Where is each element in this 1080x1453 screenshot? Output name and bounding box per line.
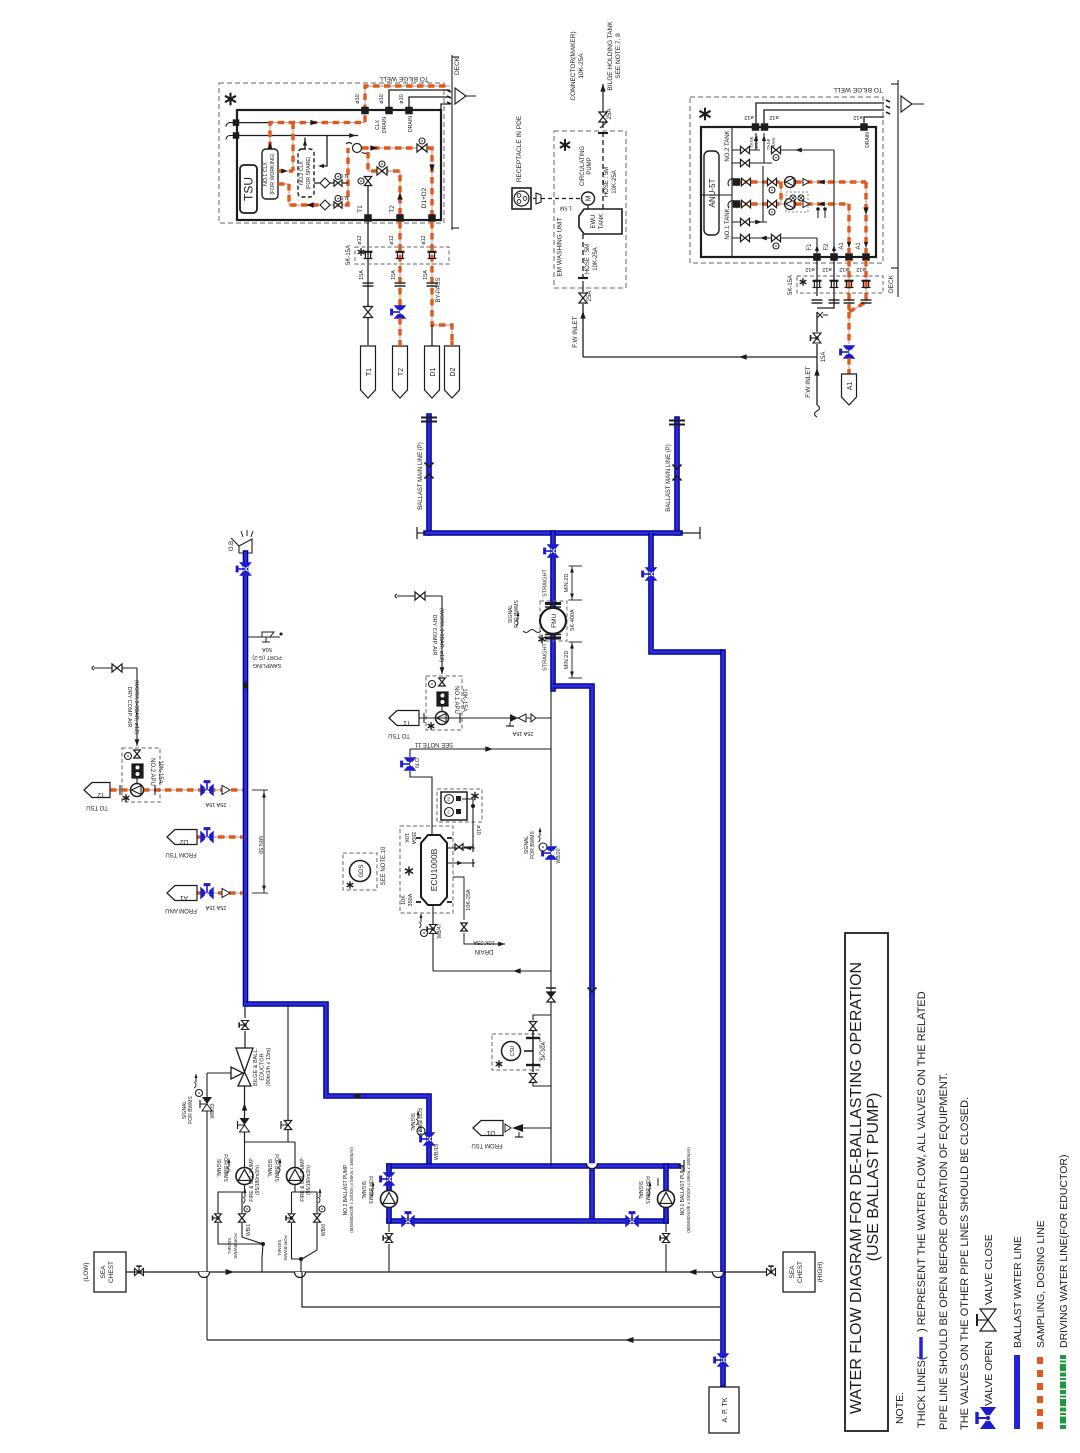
svg-text:NO.2 TANK: NO.2 TANK <box>725 130 731 161</box>
flag T2 left <box>84 783 110 798</box>
pump discharge manifold <box>245 1141 296 1143</box>
svg-text:ø10: ø10 <box>399 94 405 103</box>
valve N.O with gauge <box>334 202 342 209</box>
dimension MIN.50 <box>263 790 265 893</box>
connector to maker <box>598 132 608 134</box>
legend sampling dosing line sample <box>1037 1355 1043 1429</box>
EWU tank <box>579 209 622 234</box>
line breaks ANU <box>812 299 823 301</box>
svg-text:(FOR WORKING): (FOR WORKING) <box>270 153 276 194</box>
hose upper 5M dashed <box>602 133 604 209</box>
check valve D1 <box>505 1124 511 1132</box>
svg-text:FROM ANU: FROM ANU <box>165 907 197 913</box>
svg-text:ø12: ø12 <box>357 235 363 244</box>
ballast riser to A.P. TK <box>720 652 726 1384</box>
ECU flanges <box>416 837 421 839</box>
svg-text:(LOW): (LOW) <box>83 1262 90 1281</box>
check valve row A <box>803 179 809 186</box>
title block box <box>845 933 888 1431</box>
node dot pressure line <box>471 804 475 808</box>
svg-text:FOR BWMS: FOR BWMS <box>222 1154 228 1182</box>
svg-text:ø12: ø12 <box>389 235 395 244</box>
svg-text:BALLAST MAIN LINE (P): BALLAST MAIN LINE (P) <box>666 444 672 512</box>
valve 25A blue branch1 <box>201 782 213 796</box>
valve T1 takeoff with gauge <box>364 177 371 186</box>
tank drain valve row 2 <box>732 162 772 164</box>
pipe break squiggle <box>815 405 820 417</box>
WB/33 line vertical <box>206 1073 208 1340</box>
dry compressed air line NO.2 APU <box>92 666 94 670</box>
drain pipes to bilge well <box>389 90 450 107</box>
svg-text:GDS: GDS <box>359 864 365 877</box>
pump ANU row B <box>785 199 796 210</box>
pump ANU row A <box>785 177 796 188</box>
valve WB/33 <box>202 1097 212 1104</box>
svg-text:ø12: ø12 <box>822 266 831 272</box>
svg-text:350A: 350A <box>410 832 416 845</box>
svg-text:ø10: ø10 <box>355 94 361 103</box>
valve T1 closed <box>363 307 372 318</box>
pipe F1 drop <box>816 260 818 296</box>
valve 25A blue branch2 <box>201 829 213 843</box>
pipe ECU outlet to center line <box>433 970 551 972</box>
svg-text:BY-PASS: BY-PASS <box>436 277 442 302</box>
pipe F.W inlet EM <box>582 281 584 292</box>
pipe to bilge holding tank <box>602 84 604 128</box>
svg-text:TANK: TANK <box>599 214 605 230</box>
svg-text:FOR BWMS: FOR BWMS <box>514 600 520 628</box>
svg-text:CSU: CSU <box>510 1045 516 1056</box>
NO.2 ballast pump <box>381 1191 398 1208</box>
GDS sensor circle <box>350 861 371 882</box>
CSU dashed box <box>492 1034 540 1070</box>
NO.2 APU dashed box <box>122 748 160 802</box>
eductor feed from ballast line <box>244 1007 246 1018</box>
gauge PS <box>445 795 454 804</box>
svg-text:(95/180m3/h): (95/180m3/h) <box>255 1165 261 1195</box>
valve N.O blue <box>409 749 411 757</box>
TSU unit dashed enclosure <box>219 83 444 223</box>
svg-text:CHEST: CHEST <box>797 1261 804 1283</box>
legend driving water line sample <box>1060 1355 1066 1429</box>
flag T1 to TSU <box>389 711 419 726</box>
svg-text:FOR BWMS: FOR BWMS <box>367 1176 373 1204</box>
pipe tap to NO.2 CLX <box>320 136 327 167</box>
svg-text:F2: F2 <box>824 243 830 251</box>
ballast branch right to riser <box>651 533 723 652</box>
legend valve close symbol <box>977 1309 996 1331</box>
svg-text:CLX: CLX <box>375 119 381 130</box>
5K-15A connection box TSU <box>355 247 449 264</box>
flag T2 <box>393 346 408 398</box>
drain junctions on cabinet top <box>362 107 369 114</box>
svg-text:NO.1 CLX: NO.1 CLX <box>263 162 269 186</box>
svg-text:SEE NOTE.11: SEE NOTE.11 <box>414 741 453 747</box>
dry compressed air line NO.1 APU <box>395 594 397 598</box>
ballast crossover header <box>426 530 680 536</box>
svg-text:10K-25A: 10K-25A <box>612 170 618 193</box>
pipe TSU feed black <box>239 122 270 124</box>
sampling drop to A1 left <box>848 204 850 253</box>
valve N.C on center line <box>547 992 555 1002</box>
svg-text:DRY COMP. AIR: DRY COMP. AIR <box>126 687 132 728</box>
svg-text:TSU: TSU <box>242 177 256 201</box>
svg-text:A1: A1 <box>180 894 188 901</box>
svg-text:WB/6: WB/6 <box>321 1224 327 1236</box>
pressure switch dashed box <box>437 789 482 822</box>
check valve N.O diamond <box>320 200 330 210</box>
svg-text:25A 15A: 25A 15A <box>205 904 226 910</box>
pipe T1 to flag <box>367 318 369 345</box>
svg-text:BALLAST MAIN LINE (P): BALLAST MAIN LINE (P) <box>418 442 424 510</box>
svg-text:MIN.2D: MIN.2D <box>564 574 570 593</box>
svg-text:T1: T1 <box>357 205 364 213</box>
F2 junction <box>831 254 838 261</box>
circulating pump M <box>582 192 595 205</box>
sampling pipe T2 drop <box>399 222 401 307</box>
asterisk ANU <box>700 108 711 121</box>
ANU-5T label box <box>704 151 719 235</box>
pipe F2 drop <box>817 260 834 308</box>
svg-text:BILGE HOLDING TANK: BILGE HOLDING TANK <box>607 21 614 91</box>
CSU strainer <box>532 1031 534 1072</box>
hose connector T1 <box>364 251 373 253</box>
svg-text:SIGNAL: SIGNAL <box>215 1159 221 1178</box>
sampling dosing line TSU top loop <box>270 86 450 148</box>
NO.2 APU pump <box>131 784 144 797</box>
svg-text:BILGE & BALL.: BILGE & BALL. <box>253 1048 259 1086</box>
check valve row B <box>803 201 809 208</box>
suction junction NO.1 tank <box>733 201 740 208</box>
svg-text:ø12: ø12 <box>805 266 814 272</box>
valve A1 blue open <box>841 346 855 358</box>
svg-text:T2: T2 <box>398 368 405 376</box>
ECU1000B body <box>421 835 447 905</box>
NO.1 APU gauge <box>429 681 436 688</box>
ballast pump suction NO.2 <box>388 1224 390 1232</box>
svg-text:25A 15A: 25A 15A <box>512 730 533 736</box>
relief valve F.W inlet <box>817 312 828 318</box>
svg-text:CHEST: CHEST <box>108 1261 115 1283</box>
svg-text:BALLAST WATER LINE: BALLAST WATER LINE <box>1012 1236 1024 1348</box>
valve row B 1 <box>742 200 751 207</box>
svg-text:DRIVING WATER LINE(FOR EDUCTOR: DRIVING WATER LINE(FOR EDUCTOR) <box>1058 1155 1070 1348</box>
pipe TSU spare black line <box>239 135 358 137</box>
svg-text:FOR BWMS: FOR BWMS <box>273 1154 279 1182</box>
legend ballast water line sample <box>1014 1355 1020 1429</box>
junction T2 <box>397 215 404 222</box>
svg-text:T1: T1 <box>366 368 373 376</box>
NO.2 APU inlet valve <box>134 750 141 758</box>
svg-text:N.C: N.C <box>339 172 348 178</box>
line breaks <box>363 282 374 284</box>
ballast bottom main line <box>389 1163 678 1169</box>
svg-text:NO.2 CLX: NO.2 CLX <box>299 161 305 185</box>
EM WASHING UNIT dashed enclosure <box>554 131 626 288</box>
TSU inner cabinet box <box>237 110 441 220</box>
svg-text:WB/20: WB/20 <box>556 848 562 863</box>
ECU drain 10K-25A <box>453 877 464 920</box>
pipe T2 to flag <box>399 318 401 346</box>
flag T1 <box>361 346 376 398</box>
NO.2 APU gauge <box>125 753 132 760</box>
bottom main right cap <box>678 1165 684 1167</box>
svg-text:EDUCTOR: EDUCTOR <box>260 1053 266 1080</box>
pipe F.W inlet ANU <box>816 312 818 332</box>
center line WB/20 <box>550 689 552 1166</box>
svg-text:10K: 10K <box>401 895 407 905</box>
ballast branch to FMU <box>550 533 556 689</box>
hose connector A1b <box>862 280 871 282</box>
svg-text:VALVE OPEN: VALVE OPEN <box>983 1341 995 1406</box>
svg-text:FROM TSU: FROM TSU <box>471 1142 502 1148</box>
svg-text:RECEPTACLE IN PDE: RECEPTACLE IN PDE <box>516 115 523 182</box>
svg-text:NO.1 APU: NO.1 APU <box>453 686 459 714</box>
fire pump no.1 suction assembly <box>218 1184 245 1213</box>
tank drain junction 2 <box>761 124 768 131</box>
SEA CHEST HIGH box <box>783 1252 815 1292</box>
NO.2 APU filter <box>132 764 143 778</box>
hose connector D1+D2 <box>428 251 437 253</box>
svg-text:FROM TSU: FROM TSU <box>165 851 196 857</box>
svg-text:FOR BWMS: FOR BWMS <box>530 831 536 859</box>
RECEPTACLE IN PDE box <box>512 188 531 209</box>
drain pipes ANU to bilge well <box>756 103 884 123</box>
ballast staircase to pumps <box>246 1004 430 1164</box>
ballast overboard riser <box>243 553 249 1004</box>
NO.1 APU pump <box>436 712 449 725</box>
svg-text:A. P. TK: A. P. TK <box>722 1397 729 1422</box>
vent valve NO.1 tank <box>732 221 767 223</box>
svg-text:N.O: N.O <box>415 757 421 768</box>
svg-text:EWU: EWU <box>591 215 597 229</box>
valve header blue NO.2 side <box>402 1213 414 1227</box>
svg-text:ø12: ø12 <box>421 235 427 244</box>
valve row A 1 <box>742 178 751 185</box>
power cord dashed 1.5M <box>541 198 581 200</box>
svg-text:(95/180m3/h): (95/180m3/h) <box>306 1165 312 1195</box>
svg-text:DRAIN: DRAIN <box>382 117 388 133</box>
valve row A 2 with gauge <box>768 178 777 185</box>
valve with gauge T2 branch <box>377 167 387 175</box>
svg-text:T2: T2 <box>389 205 396 213</box>
svg-text:PIPE LINE SHOULD BE OPEN BEFOR: PIPE LINE SHOULD BE OPEN BEFORE OPERATIO… <box>938 1073 950 1430</box>
svg-text:A1: A1 <box>847 382 854 391</box>
svg-text:FOR BWMS: FOR BWMS <box>233 1233 238 1258</box>
svg-text:(HIGH): (HIGH) <box>817 1262 824 1283</box>
svg-text:DECK: DECK <box>888 274 895 293</box>
eductor suction from WB/33 line <box>207 1072 231 1074</box>
valve sea chest high <box>767 1266 776 1275</box>
svg-text:F.W INLET: F.W INLET <box>572 316 579 347</box>
svg-text:FOR BWMS: FOR BWMS <box>283 1235 288 1260</box>
ANU inner cabinet box <box>701 127 876 257</box>
valve NO.2 pump discharge blue <box>381 1173 395 1185</box>
svg-text:MIN.2D: MIN.2D <box>564 651 570 670</box>
svg-text:WATER FLOW DIAGRAM FOR DE-BALL: WATER FLOW DIAGRAM FOR DE-BALLASTING OPE… <box>848 962 865 1414</box>
FMU flowmeter <box>540 601 567 641</box>
svg-text:ø12: ø12 <box>769 114 778 120</box>
drain junction right <box>861 124 868 131</box>
flag D1 <box>425 346 440 398</box>
sampling branch FROM ANU A1 <box>196 892 243 894</box>
tank drain valve row 1 <box>732 149 760 151</box>
svg-text:A1: A1 <box>856 242 862 250</box>
svg-text:(WORK.3-9BAR, ø12): (WORK.3-9BAR, ø12) <box>438 608 444 662</box>
valve 25A bilge holding <box>599 112 607 122</box>
junction T1 <box>365 215 372 222</box>
svg-text:10K-15A: 10K-15A <box>157 760 163 783</box>
pipe T1 sample line <box>419 717 551 719</box>
valve with gauge top return <box>772 146 781 153</box>
cross connection rows <box>780 182 782 204</box>
F1 junction <box>814 254 821 261</box>
valve blue right branch <box>643 568 657 580</box>
svg-text:ø10: ø10 <box>475 825 481 834</box>
sampling branch T2 <box>368 152 400 218</box>
rail jump loops <box>199 1272 210 1278</box>
svg-text:DRAIN: DRAIN <box>754 135 759 148</box>
svg-text:WB/33: WB/33 <box>210 1103 216 1118</box>
svg-text:D1: D1 <box>430 367 437 376</box>
svg-text:10K: 10K <box>403 833 409 843</box>
svg-text:SIGNAL: SIGNAL <box>266 1159 272 1178</box>
svg-text:MIN.50: MIN.50 <box>257 836 263 854</box>
svg-text:DRAIN: DRAIN <box>408 116 414 132</box>
CSU loop upper <box>533 1015 551 1020</box>
overboard O.B symbol <box>239 539 252 553</box>
bilge well funnel ANU <box>901 96 924 112</box>
sampling branch FROM TSU D2 <box>196 836 243 838</box>
svg-text:STRAIGHT: STRAIGHT <box>543 642 549 670</box>
svg-text:N.O: N.O <box>339 194 348 200</box>
svg-text:5K-15A: 5K-15A <box>346 245 352 265</box>
svg-text:15A: 15A <box>423 270 429 280</box>
valve row B 2 with gauge <box>768 200 777 207</box>
sampling port G-2 50A <box>248 636 280 638</box>
solenoid lollipops <box>817 210 819 218</box>
svg-text:SAMPLING: SAMPLING <box>253 662 281 668</box>
NO.1 ballast pump drop <box>663 1166 669 1221</box>
svg-text:PUMP: PUMP <box>587 157 593 174</box>
svg-text:SIGNAL: SIGNAL <box>409 1113 415 1132</box>
svg-text:SIGNAL: SIGNAL <box>637 1181 643 1200</box>
svg-text:THE VALVES ON THE OTHER PIPE L: THE VALVES ON THE OTHER PIPE LINES SHOUL… <box>959 1097 971 1430</box>
rail 3 <box>207 1339 720 1341</box>
sampling drop to A1 right <box>865 182 867 253</box>
svg-text:ø12: ø12 <box>744 114 753 120</box>
fire pump no.2 suction assembly <box>292 1184 296 1192</box>
hose connector F1 <box>813 280 822 282</box>
svg-text:FOR BWMS: FOR BWMS <box>644 1176 650 1204</box>
valve T2 open blue <box>392 306 406 318</box>
svg-text:D1+D2: D1+D2 <box>421 187 428 208</box>
svg-text:A1: A1 <box>839 242 845 250</box>
svg-text:FMU: FMU <box>551 613 558 627</box>
eductor discharge down <box>244 1086 246 1142</box>
NO.2 CLX (FOR SPARE) box <box>298 149 314 197</box>
pipe D2 to flag <box>451 341 453 346</box>
svg-text:THICK LINES(: THICK LINES( <box>916 1356 928 1428</box>
svg-text:VALVE CLOSE: VALVE CLOSE <box>983 1234 995 1305</box>
svg-text:D2: D2 <box>450 367 457 376</box>
svg-text:DECK: DECK <box>454 56 461 75</box>
svg-text:WB/47: WB/47 <box>437 923 443 938</box>
pipe T1 drop <box>367 222 369 306</box>
ballast pump discharge header <box>389 1218 666 1224</box>
svg-text:(USE BALLAST PUMP): (USE BALLAST PUMP) <box>865 1093 882 1262</box>
asterisk TSU <box>225 93 236 106</box>
svg-text:HOSE : 5M: HOSE : 5M <box>585 244 591 274</box>
pipe D1 drop black <box>431 325 433 341</box>
check valve 25A <box>510 714 518 722</box>
cone 15A branch1 <box>222 786 230 795</box>
dimension MIN.2D lower <box>571 642 573 678</box>
ballast main line P left riser <box>426 416 432 533</box>
DECK line TSU <box>451 55 453 230</box>
pipe NO.2 CLX top vent <box>304 138 306 150</box>
drive line from pumps <box>287 1005 289 1142</box>
svg-text:M: M <box>586 195 593 201</box>
svg-text:(500/600m3/h x 25/20m x 55Kw x: (500/600m3/h x 25/20m x 55Kw x 1800rpm) <box>686 1147 691 1233</box>
pipe D1 to flag <box>431 341 433 346</box>
svg-text:25A 15A: 25A 15A <box>205 801 226 807</box>
svg-text:1.5M: 1.5M <box>559 205 572 211</box>
tank pickup hooks left of cabinet <box>226 123 236 127</box>
bilge well funnel TSU <box>455 88 476 104</box>
svg-text:EM WASHING UNIT: EM WASHING UNIT <box>557 217 564 276</box>
crossing jump main over drop <box>587 1163 598 1169</box>
svg-text:15A: 15A <box>391 270 397 280</box>
svg-text:25A: 25A <box>587 291 593 302</box>
flag D1 from TSU <box>473 1121 503 1136</box>
sampling line ANU row B <box>740 203 849 205</box>
check valve N.C diamond <box>320 178 330 188</box>
A1 junction right <box>863 254 870 261</box>
svg-text:50A: 50A <box>262 646 272 652</box>
ECU side stubs <box>447 847 475 849</box>
svg-text:SEA: SEA <box>100 1265 107 1279</box>
svg-text:T1: T1 <box>403 719 411 726</box>
rail 2 <box>302 1272 720 1307</box>
svg-text:WB/1: WB/1 <box>246 1224 252 1236</box>
TSU label box <box>240 165 257 213</box>
A1 junction left <box>846 254 853 261</box>
NO.1 ballast pump <box>658 1191 675 1208</box>
valve header blue NO.1 side <box>626 1213 638 1227</box>
5K-15A connection box ANU <box>797 276 883 293</box>
header right cap <box>680 532 700 534</box>
bilge and ballast eductor <box>236 1048 253 1072</box>
pipe return NO.2 tank <box>781 149 834 151</box>
svg-text:HOSE : 5M: HOSE : 5M <box>604 167 610 197</box>
valve sea chest low <box>135 1266 144 1275</box>
svg-text:D1: D1 <box>486 1129 495 1136</box>
GDS dashed box <box>343 853 377 890</box>
svg-text:NO.1 TANK: NO.1 TANK <box>725 208 731 239</box>
valve 25A F.W inlet EM <box>579 293 587 303</box>
control dotted box <box>786 192 808 212</box>
fill line NO.1 tank F1 <box>732 237 817 239</box>
cone 15A branch3 <box>222 889 230 898</box>
valve WB/19 blue <box>421 1133 435 1145</box>
svg-text:D2: D2 <box>179 838 188 845</box>
svg-text:(90m3/h x 13m): (90m3/h x 13m) <box>266 1048 272 1087</box>
svg-text:5K-50A: 5K-50A <box>541 1042 547 1061</box>
svg-text:STRAIGHT: STRAIGHT <box>543 568 549 596</box>
sampling line from NO.1 CLX side <box>278 170 293 172</box>
tank column divider <box>731 127 733 257</box>
